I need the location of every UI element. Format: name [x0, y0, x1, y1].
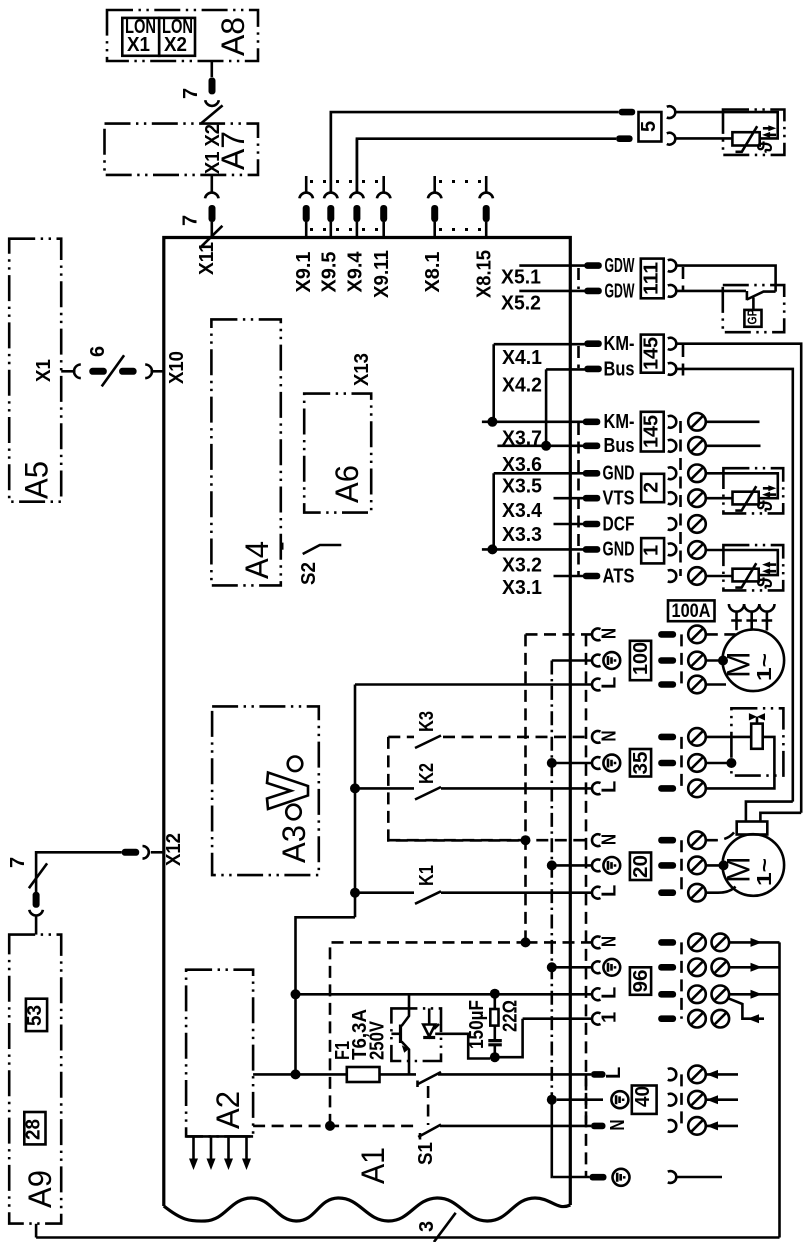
wire socket to A9 [35, 917, 38, 935]
earth symbol PE40 circled [611, 1091, 628, 1108]
socket arc X12 [143, 846, 149, 859]
relay contact K2 [355, 787, 414, 790]
svg-text:A1: A1 [355, 1147, 391, 1184]
svg-text:K1: K1 [416, 865, 438, 886]
svg-text:GND: GND [603, 463, 635, 485]
svg-text:X10: X10 [166, 351, 188, 384]
wire Bus2 external [706, 444, 761, 447]
junction PE35 bus [547, 758, 557, 768]
wire X9.5 riser to outdoor sensor line [329, 112, 332, 191]
wire L20 row [441, 891, 592, 894]
junction cap bottom [490, 1052, 500, 1062]
screw terminal Bus2 [688, 437, 706, 455]
thermistor AF slash [736, 126, 758, 152]
screw terminal PE20 [688, 857, 706, 875]
riser X4.2 to X3.6 [545, 369, 548, 445]
switch S1 pole L tick [416, 1081, 419, 1088]
thermistor SP slash [735, 563, 756, 587]
wire PE20 row [552, 864, 592, 867]
plug blob N40 [591, 1123, 606, 1130]
junction X3.5/X3.2 [487, 544, 497, 554]
svg-text:1~: 1~ [754, 653, 776, 681]
svg-text:A6: A6 [329, 465, 365, 503]
dotted line X8 bottom [439, 228, 482, 231]
screw terminals 96 1 row [688, 1010, 706, 1028]
screw terminal GND [688, 465, 706, 483]
socket arc X9.5 [324, 193, 338, 199]
svg-text:X9.11: X9.11 [371, 250, 393, 298]
plug blob A8 bus [209, 77, 216, 94]
wire N35 row [443, 736, 592, 739]
junction motor20 [719, 860, 729, 870]
connector LON X2 [159, 18, 195, 56]
junction L40 [291, 1069, 301, 1079]
dashed line board edge column [585, 634, 588, 1177]
plug blob Bus1 [584, 366, 602, 373]
wire PE96 row [552, 966, 592, 969]
wire X9.5 to edge [329, 222, 332, 238]
svg-text:5: 5 [638, 121, 660, 132]
plug blob X1 a [89, 368, 107, 375]
svg-text:100: 100 [630, 642, 652, 675]
wire to box edge X12 [151, 851, 164, 854]
wire PE35 row [552, 762, 592, 765]
wire L35 row [441, 787, 592, 790]
A2 arrow 1 [192, 1136, 195, 1160]
plug blob L40 [591, 1071, 606, 1078]
plug blob KM-1 [584, 340, 602, 347]
socket arc GDW 2 [668, 285, 676, 297]
switch S1 pole L blade [417, 1072, 441, 1085]
svg-text:L: L [599, 677, 621, 689]
plug blob GND2 [583, 546, 601, 553]
svg-text:53: 53 [24, 1005, 46, 1026]
tag box 145 #1 [641, 335, 664, 373]
plug blob L20 [658, 889, 676, 896]
sensor AF dash-dot box [723, 110, 784, 155]
capacitor 150uF plates [488, 1041, 502, 1045]
screw terminal N40 [688, 1117, 706, 1135]
socket arc X8.1 [428, 193, 442, 199]
screw terminal GND2 [688, 541, 706, 559]
screw terminal L40 [688, 1066, 706, 1084]
dashed column right of edge lower [577, 423, 580, 575]
socket arc L20 [592, 887, 600, 899]
svg-text:M: M [721, 651, 757, 678]
screw terminal VTS [688, 489, 706, 507]
svg-text:L: L [599, 885, 621, 897]
socket arc GND2 [668, 544, 676, 556]
motor100 winding cups [729, 604, 744, 612]
screw terminals 96 N row [688, 934, 706, 952]
wire 1-row [523, 1017, 592, 1020]
tag box 111 [641, 259, 664, 299]
socket arc X9.1 [299, 193, 313, 199]
svg-text:ϑ: ϑ [755, 577, 777, 589]
dashed link GDW pair [682, 267, 685, 290]
svg-text:A3: A3 [276, 825, 312, 863]
socket arc L35 [592, 783, 600, 795]
svg-text:S1: S1 [415, 1142, 437, 1165]
sensor VF1 arrows [763, 487, 771, 490]
tag box 35 [630, 749, 651, 777]
svg-text:X5.1: X5.1 [501, 266, 541, 288]
socket arc 5 bottom [667, 133, 675, 145]
svg-text:L: L [603, 1067, 625, 1079]
svg-text:X9.5: X9.5 [319, 252, 341, 293]
wire ATS to SP [706, 575, 733, 578]
svg-text:X4.1: X4.1 [502, 347, 542, 369]
plug blob DCF [583, 521, 601, 528]
dotted line X9 top [310, 180, 380, 183]
module A6 box [304, 394, 371, 513]
wire PE20 to motor [706, 864, 723, 867]
svg-text:L: L [599, 987, 621, 999]
svg-text:VTS: VTS [603, 488, 635, 510]
wire L40 in with arrow [706, 1073, 738, 1076]
wire L96 out with arrow [729, 993, 779, 996]
wire KM vertical into cap [760, 813, 801, 822]
plug blob PE20 [658, 862, 676, 869]
tag box 2 [641, 474, 664, 502]
thermistor VF1 body [733, 492, 759, 505]
vertical Bus1 down right edge [791, 369, 794, 802]
plug blob Bus2 [583, 443, 601, 450]
wire N100 row [526, 633, 593, 636]
wire L40 row [438, 1073, 591, 1076]
wire KM-1 external [676, 342, 801, 345]
L bus vertical upper [354, 685, 357, 918]
wire X9.5 to sensor 5 top [331, 112, 619, 191]
stub X9.11 [382, 176, 385, 192]
relay K3 return path dashed [388, 737, 525, 841]
plug blob X9.4 [353, 205, 360, 222]
svg-text:3: 3 [416, 1221, 438, 1232]
opto LED arrows [434, 1024, 439, 1029]
svg-text:7: 7 [7, 857, 29, 868]
svg-text:GDW: GDW [605, 255, 635, 277]
plug blob X12 horizontal [122, 849, 140, 856]
svg-text:A8: A8 [215, 17, 251, 56]
wire X9.1 to edge [305, 222, 308, 238]
plug blob X8.15 [483, 205, 490, 222]
svg-text:111: 111 [641, 262, 663, 295]
plug blob N100 [658, 631, 676, 638]
A3 logo circle lower [286, 805, 301, 820]
svg-text:X13: X13 [351, 353, 373, 386]
wire A2 to N40 dashed [253, 1125, 418, 1128]
svg-text:7: 7 [180, 215, 202, 226]
socket arc N35 [592, 731, 600, 743]
junction motor100 [718, 656, 728, 666]
screw terminal L20 [688, 884, 706, 902]
wire N40 row [440, 1125, 591, 1128]
svg-text:KM-: KM- [604, 333, 635, 355]
plug blob X1 b [119, 368, 137, 375]
wire L20 to motor [706, 887, 736, 893]
PE bus elbow to bottom row [550, 1100, 554, 1177]
svg-text:1~: 1~ [754, 858, 776, 886]
socket arc X9.4 [350, 193, 364, 199]
earth symbol PE bottom circled [613, 1169, 630, 1186]
wire Bus vertical into cap [746, 802, 793, 822]
wire X3.5 GND [494, 472, 585, 475]
socket arc Bus2 [668, 440, 676, 452]
plug blob ATS [583, 573, 601, 580]
svg-text:Bus: Bus [604, 358, 635, 380]
tag box 96 [630, 967, 651, 995]
svg-text:DCF: DCF [603, 513, 635, 535]
A2 box bottom solid edge [186, 1135, 253, 1138]
earth symbol PE96 [603, 959, 620, 976]
socket arc GND [668, 467, 676, 479]
screw terminal N35 [688, 728, 706, 746]
tag box 145 #2 [641, 412, 664, 452]
socket arc PE40 [668, 1094, 676, 1106]
svg-text:X3.3: X3.3 [502, 524, 542, 546]
svg-text:X5.2: X5.2 [501, 293, 541, 315]
vertical KM-1 down right edge [800, 344, 803, 813]
svg-text:ATS: ATS [603, 565, 635, 587]
junction PE20 bus [547, 860, 557, 870]
svg-text:X2: X2 [164, 34, 187, 56]
valve coil body [751, 724, 763, 749]
plug blob PE35 [658, 760, 676, 767]
GP dash-dot enclosure [723, 285, 784, 332]
wire X3.2 GND [482, 548, 585, 551]
A3 logo V [267, 773, 308, 810]
tag box 40 [632, 1086, 657, 1114]
svg-text:M: M [721, 856, 757, 883]
wire X3.1 ATS [554, 575, 585, 578]
svg-text:GDW: GDW [605, 280, 635, 302]
opto transistor collector [402, 994, 410, 1026]
screw terminal DCF [688, 515, 706, 533]
wire Bus1 external [676, 368, 792, 371]
wire resistor to cap [493, 1026, 496, 1040]
riser X4.1 to X3.7 [492, 344, 495, 422]
svg-text:X8.1: X8.1 [422, 252, 444, 293]
socket arc PE20 [592, 860, 600, 872]
plug blob X8.1 [431, 205, 438, 222]
svg-text:N: N [599, 628, 621, 639]
socket arc PE35 [592, 757, 600, 769]
junction N96 bus [521, 937, 531, 947]
svg-text:35: 35 [630, 752, 652, 775]
A2 arrow 3 [227, 1136, 230, 1160]
svg-text:X4.2: X4.2 [502, 375, 542, 397]
plug blob KM-2 [583, 419, 601, 426]
plug blob X12 vertical [33, 892, 40, 908]
wire X5.2 [519, 290, 584, 293]
socket arc PE100 [592, 655, 600, 667]
svg-text:L: L [599, 781, 621, 793]
connector LON X1 [122, 18, 159, 56]
screw terminals 96 PE row [688, 959, 706, 977]
socket arc N96 [592, 937, 600, 949]
wire X9.4 riser to outdoor sensor line [356, 139, 359, 192]
opto LED triangle [423, 1025, 435, 1037]
opto emitter arrow [402, 1045, 409, 1053]
junction X4.2/X3.6 [541, 441, 551, 451]
socket arc VTS [668, 492, 676, 504]
svg-text:GP: GP [745, 309, 760, 324]
A2 arrow 2 [210, 1136, 213, 1160]
wire PE bottom row [553, 1176, 590, 1179]
plug blob 5 top [619, 109, 636, 116]
socket arc X1 left [74, 365, 81, 379]
tag box 28 [24, 1112, 45, 1144]
A2 arrow 4 [245, 1136, 248, 1160]
socket arc KM-1 [668, 338, 676, 350]
dotted line X8 top [439, 180, 482, 183]
screw terminal PE40 [688, 1091, 706, 1109]
svg-text:2: 2 [641, 482, 663, 493]
dashed link X5 pair [577, 268, 580, 289]
socket arc L96 [592, 988, 600, 1000]
socket arc X8.15 [479, 193, 493, 199]
plug blob PE100 [658, 657, 676, 664]
plug blob N96 [658, 939, 676, 946]
wire PE96 out with arrow [729, 966, 779, 969]
wire plug to box edge X11 [211, 222, 214, 238]
junction L35 [350, 783, 360, 793]
svg-text:ϑ: ϑ [755, 500, 777, 512]
module A3 box [212, 706, 319, 875]
switch S1 linkage dashed [427, 1086, 430, 1125]
svg-text:S2: S2 [298, 562, 320, 585]
svg-text:22Ω: 22Ω [500, 1000, 522, 1032]
stub X9.1 [305, 176, 308, 192]
screw terminal KM-2 [688, 413, 706, 431]
plug blob GDW 1 [584, 262, 602, 269]
wire X4.1 KM- [494, 343, 585, 346]
dashed link 40 group [680, 1074, 683, 1126]
socket arc A9 top [29, 910, 43, 916]
svg-text:A2: A2 [210, 1091, 246, 1129]
svg-text:X3.5: X3.5 [502, 475, 542, 497]
wire GDW2 to GP [676, 290, 746, 293]
svg-text:A4: A4 [239, 541, 275, 579]
svg-text:6: 6 [87, 346, 109, 357]
GP switch stem [752, 298, 755, 310]
svg-text:N: N [599, 834, 621, 845]
plug blob L96 [658, 991, 676, 998]
screw terminal N100 [688, 626, 706, 644]
dotted line X9 bottom [310, 228, 380, 231]
svg-text:7: 7 [180, 88, 202, 99]
socket arc N40 [668, 1120, 676, 1132]
module A8 box [107, 10, 258, 61]
board A1 wavy bottom edge [164, 1198, 571, 1221]
bridge strap L96 to 1 [727, 998, 747, 1019]
valve bowtie [749, 713, 757, 720]
earth symbol PE20 [603, 857, 620, 874]
dashed column right of edge upper [577, 346, 580, 368]
screw terminal ATS [688, 567, 706, 585]
wire N20 to motor dashed [706, 831, 736, 841]
thermistor SP body [733, 569, 759, 582]
svg-text:40: 40 [632, 1086, 654, 1107]
wire L100 to motor [706, 683, 726, 686]
dashed link 35 group [680, 737, 683, 789]
wire junction to 1-row [495, 1019, 523, 1057]
sensor SP dash-dot box [723, 545, 783, 590]
wire X5.1 [519, 264, 584, 267]
slash 7-pole X12 [29, 863, 47, 888]
screw terminal L35 [688, 780, 706, 798]
wire fuse to S1 [380, 1073, 417, 1076]
opto transistor bar [399, 1025, 402, 1044]
plug blob X11 [209, 205, 216, 222]
motor100 winding stems [737, 612, 767, 631]
sensor SP arrows [768, 563, 776, 566]
wire GND2 to SP loop [706, 550, 778, 575]
slash 6-pole X10 [102, 355, 124, 386]
dashed link 100 group [680, 634, 683, 684]
wire X8.1 to edge [433, 222, 436, 238]
wire N40 in with arrow [706, 1125, 738, 1128]
GP switch fixed contact [746, 291, 749, 300]
wire cap to junction [493, 1046, 496, 1057]
module A2 box [186, 970, 253, 1137]
capacitor box motor20 [737, 822, 768, 835]
svg-text:N: N [599, 731, 621, 742]
wire L100 row [355, 683, 592, 686]
wire A8 to plug [211, 61, 214, 77]
socket arc Bus1 [668, 363, 676, 375]
wire L96 to resistor [493, 994, 496, 1009]
sensor VF1 dash-dot box [723, 468, 783, 513]
socket arc N20 [592, 834, 600, 846]
plug blob PE96 [658, 964, 676, 971]
socket arc X10 right [145, 365, 152, 379]
switch S2 blade [303, 545, 342, 554]
socket arc A7 top [205, 100, 219, 106]
plug blob X9.5 [327, 205, 334, 222]
junction PE35 frame [726, 758, 736, 768]
opto LED bar [423, 1036, 435, 1039]
svg-text:X3.4: X3.4 [502, 500, 543, 522]
screw terminal PE100 [688, 652, 706, 670]
valve stem [756, 717, 759, 724]
svg-text:X3.1: X3.1 [502, 577, 542, 599]
svg-text:X9.1: X9.1 [293, 252, 315, 293]
junction L96 [291, 989, 301, 999]
relay contact K1 [355, 891, 414, 894]
stub X8.1 [433, 176, 436, 192]
socket arc 5 top [667, 106, 675, 118]
svg-text:28: 28 [23, 1119, 45, 1140]
socket arc ATS [668, 570, 676, 582]
plug blob VTS [583, 495, 601, 502]
wire A7 to X11 socket [211, 175, 214, 192]
wire PE35 to frame [706, 762, 732, 765]
svg-text:X3.2: X3.2 [502, 555, 542, 577]
tag box 20 [630, 853, 651, 881]
bus 96 right vertical [778, 942, 781, 1237]
riser X3.5 to X3.2 [492, 473, 495, 549]
slash 7-pole A8-A7 [201, 105, 223, 123]
motor M20 circle [723, 834, 785, 896]
wire sensor top loop [676, 112, 778, 138]
svg-text:250V: 250V [367, 1020, 389, 1060]
svg-text:ϑ: ϑ [755, 141, 777, 153]
socket arc N100 [592, 629, 600, 641]
svg-text:X12: X12 [163, 833, 185, 866]
svg-text:A5: A5 [19, 461, 55, 499]
module A7 box [105, 124, 259, 175]
